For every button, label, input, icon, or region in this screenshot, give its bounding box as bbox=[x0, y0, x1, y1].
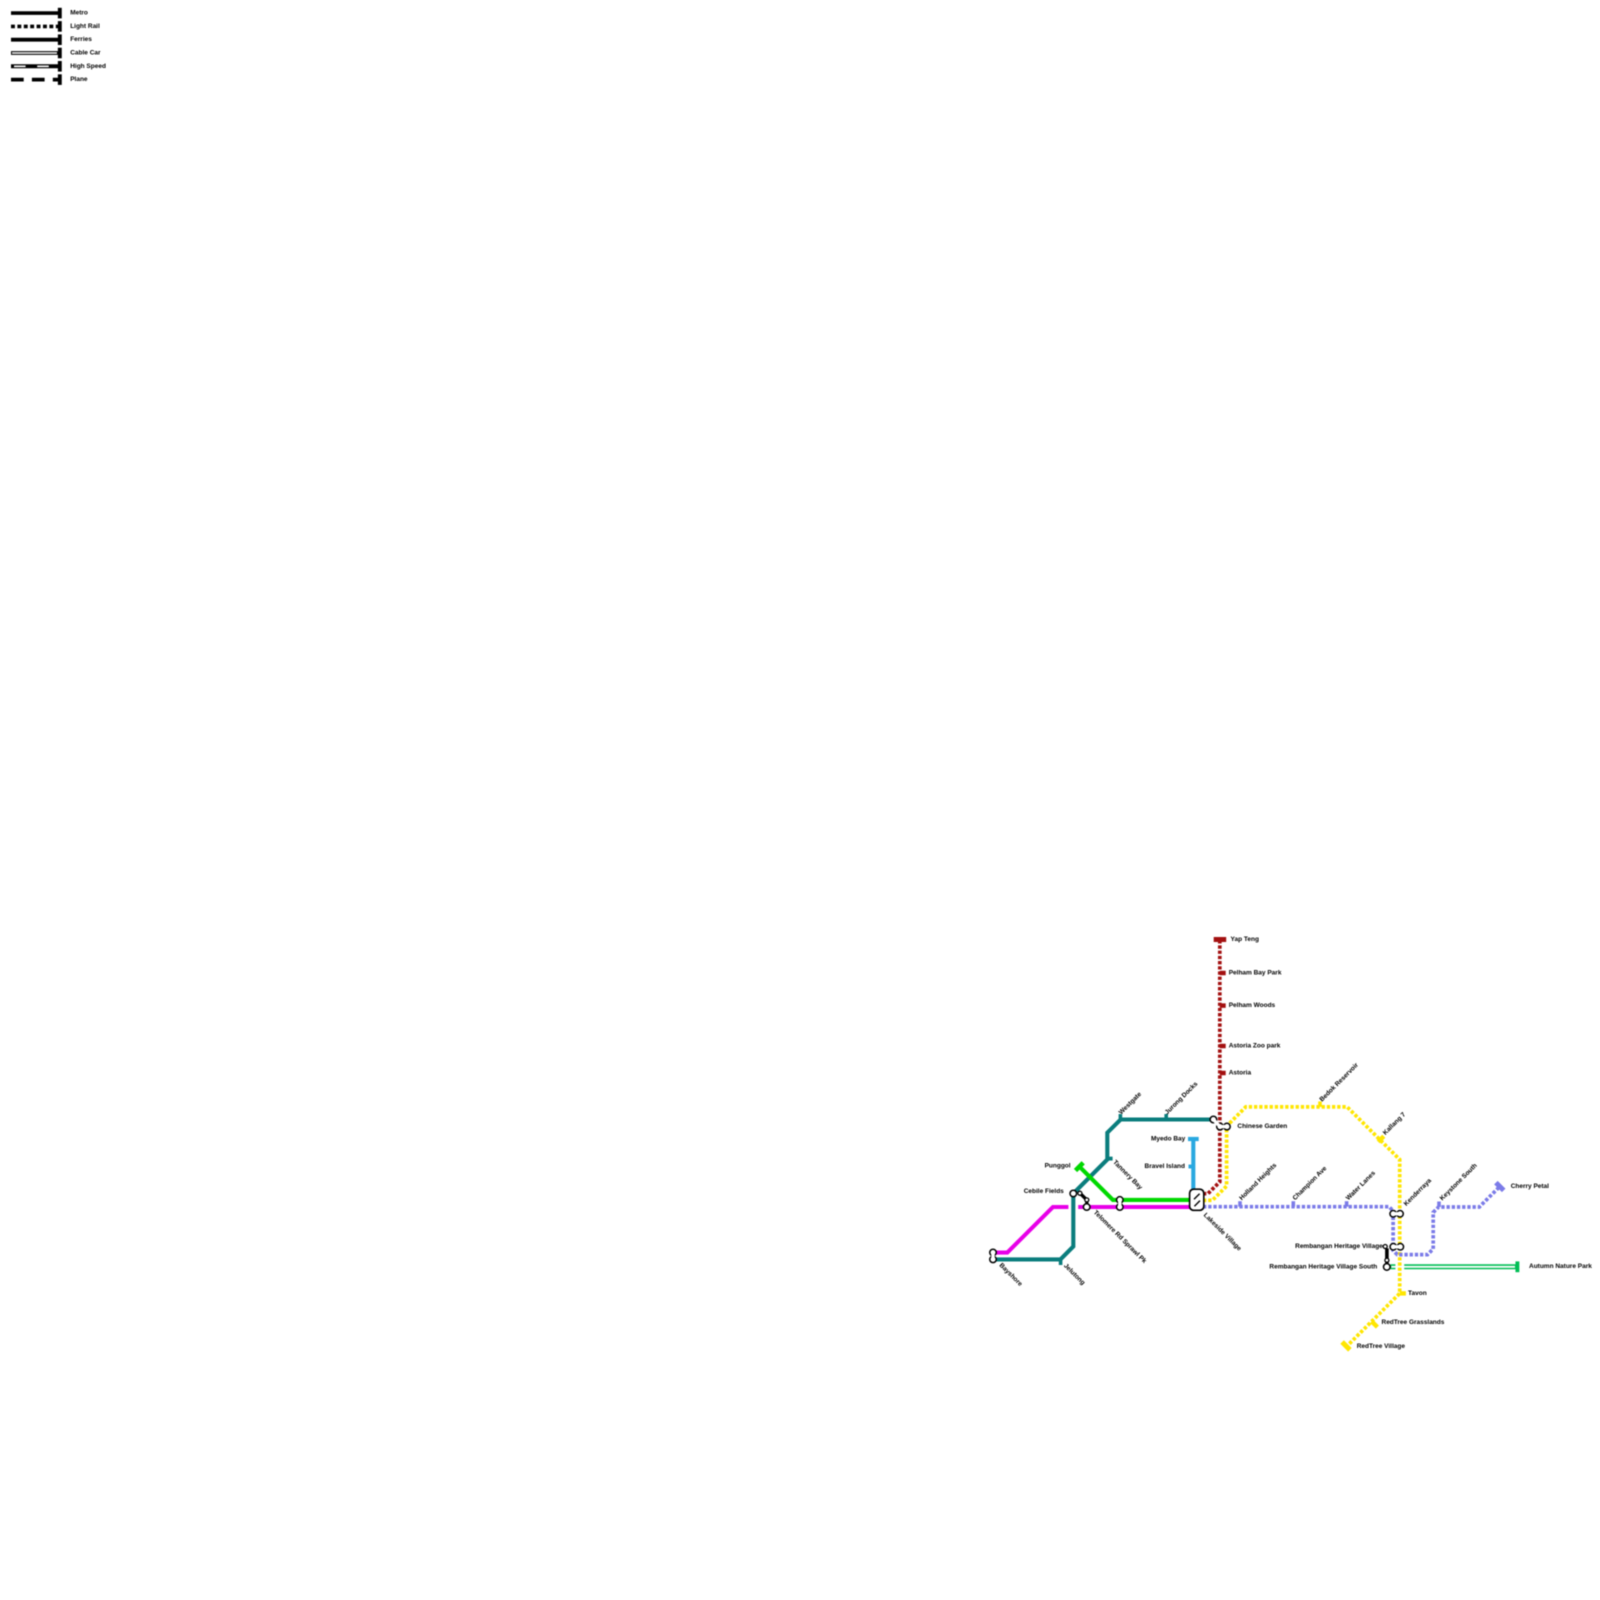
magenta metro line Bay Shores - Lakeside Village bbox=[993, 1207, 1196, 1253]
yellow light-rail line Chinese Garden loop - RedTree Village bbox=[1203, 1107, 1400, 1347]
green metro line Punggol - Lakeside Village bbox=[1079, 1167, 1196, 1200]
white casing for teal over magenta crossing bbox=[1068, 1199, 1078, 1216]
periwinkle tick Keystone South bbox=[1437, 1202, 1441, 1208]
svg-text:Metro: Metro bbox=[70, 10, 88, 17]
svg-text:Autumn Nature Park: Autumn Nature Park bbox=[1529, 1263, 1592, 1270]
svg-text:Tavon: Tavon bbox=[1408, 1290, 1427, 1297]
teal tick Tannery Bay bbox=[1107, 1157, 1112, 1161]
periwinkle tick Holland Heights bbox=[1238, 1201, 1242, 1207]
yellow tick RedTree Grasslands bbox=[1372, 1321, 1378, 1327]
white casing where yellow crosses ferry bbox=[1395, 1263, 1404, 1270]
station circle Rembangan Heritage Village South bbox=[1384, 1264, 1391, 1271]
legend Light Rail line bbox=[11, 25, 58, 29]
cyan tick Bravel Island bbox=[1189, 1165, 1194, 1169]
red tick Pelham Bay Park bbox=[1220, 971, 1226, 976]
interchange Lakeside Village (central) bbox=[1189, 1188, 1205, 1211]
svg-text:Light Rail: Light Rail bbox=[70, 23, 100, 30]
svg-text:Punggol: Punggol bbox=[1045, 1163, 1071, 1170]
legend High Speed line bbox=[11, 64, 58, 68]
small circle left of Rembangan Heritage Village bbox=[1383, 1245, 1387, 1249]
svg-text:Rembangan Heritage Village Sou: Rembangan Heritage Village South bbox=[1269, 1263, 1377, 1270]
svg-text:Pelham Bay Park: Pelham Bay Park bbox=[1229, 970, 1282, 977]
svg-text:Astoria Zoo park: Astoria Zoo park bbox=[1229, 1043, 1281, 1050]
periwinkle light-rail line Lakeside Village - Cherry Petal bbox=[1203, 1187, 1500, 1255]
legend Metro line bbox=[11, 11, 58, 15]
teal metro line Bay Shores - Chinese Garden bbox=[993, 1120, 1215, 1260]
svg-text:RedTree Grasslands: RedTree Grasslands bbox=[1382, 1319, 1445, 1326]
red light-rail line Yap Teng - Lakeside Village bbox=[1203, 940, 1220, 1194]
red tick Astoria Zoo park bbox=[1220, 1044, 1226, 1049]
svg-text:Bravel Island: Bravel Island bbox=[1145, 1163, 1185, 1170]
legend Cable Car line bbox=[11, 51, 58, 55]
diagonal corridor hatches bbox=[1194, 1194, 1200, 1200]
yellow tick Tavon bbox=[1400, 1291, 1406, 1295]
periwinkle terminus cap Cherry Petal bbox=[1496, 1183, 1504, 1191]
station pair green/magenta x=1120 bbox=[1117, 1197, 1124, 1211]
interchange pair Kenderraya (yellow/periwinkle upper) bbox=[1390, 1211, 1403, 1218]
interchange Chinese Garden capsule bbox=[1210, 1116, 1230, 1130]
cyan terminus cap Myedo Bay bbox=[1188, 1137, 1199, 1141]
legend Plane line bbox=[11, 78, 58, 82]
yellow terminus cap RedTree Village bbox=[1342, 1342, 1350, 1350]
svg-text:RedTree Village: RedTree Village bbox=[1357, 1343, 1406, 1350]
svg-text:Yap Teng: Yap Teng bbox=[1231, 936, 1259, 943]
cyan metro line Myedo Bay - Lakeside Village bbox=[1191, 1139, 1195, 1193]
svg-text:Rembangan Heritage Village: Rembangan Heritage Village bbox=[1295, 1243, 1383, 1250]
ferry (cable-car style) line Rembangan Heritage Village South - Autumn Nature Park bbox=[1391, 1264, 1516, 1269]
small circle near Cebile Fields bbox=[1078, 1191, 1082, 1195]
svg-text:Ferries: Ferries bbox=[70, 36, 92, 43]
red tick Astoria bbox=[1220, 1071, 1226, 1076]
teal tick Jelutong bbox=[1059, 1259, 1063, 1265]
small circle on Rembangan connector bbox=[1385, 1258, 1389, 1262]
small circle on connector bbox=[1085, 1198, 1089, 1202]
station pair Bay Shores bbox=[990, 1249, 997, 1262]
ferry terminus cap Autumn Nature Park bbox=[1515, 1261, 1519, 1272]
teal tick Westgate bbox=[1119, 1114, 1123, 1120]
legend Ferries line bbox=[11, 38, 58, 42]
periwinkle tick Water Lanes bbox=[1345, 1201, 1349, 1207]
black transfer connector Rembangan Heritage Village - South bbox=[1385, 1248, 1389, 1263]
svg-text:Cable Car: Cable Car bbox=[70, 50, 101, 57]
red tick Pelham Woods bbox=[1220, 1003, 1226, 1008]
teal tick Jurong Docks bbox=[1164, 1114, 1168, 1120]
svg-text:Cherry Petal: Cherry Petal bbox=[1511, 1183, 1549, 1190]
black transfer connector Cebile Fields - Telomere bbox=[1080, 1193, 1087, 1206]
green terminus cap Punggol bbox=[1076, 1163, 1084, 1171]
periwinkle tick Champion Ave bbox=[1292, 1201, 1296, 1207]
svg-text:Chinese Garden: Chinese Garden bbox=[1237, 1123, 1287, 1130]
yellow tick Kallang 7 bbox=[1378, 1136, 1384, 1142]
svg-text:High Speed: High Speed bbox=[70, 63, 106, 70]
interchange pair Rembangan Heritage Village bbox=[1390, 1244, 1404, 1251]
station circle Telomere Rd Sprawl bbox=[1083, 1204, 1090, 1211]
interchange Cebile Fields big circle bbox=[1070, 1190, 1077, 1197]
svg-text:Astoria: Astoria bbox=[1229, 1070, 1252, 1077]
red terminus cap Yap Teng bbox=[1214, 937, 1227, 942]
svg-text:Myedo Bay: Myedo Bay bbox=[1151, 1136, 1186, 1143]
yellow tick Bedok Reservoir bbox=[1318, 1101, 1322, 1107]
svg-text:Cebile Fields: Cebile Fields bbox=[1024, 1188, 1064, 1195]
svg-text:Pelham Woods: Pelham Woods bbox=[1229, 1002, 1276, 1009]
svg-text:Plane: Plane bbox=[70, 76, 88, 83]
